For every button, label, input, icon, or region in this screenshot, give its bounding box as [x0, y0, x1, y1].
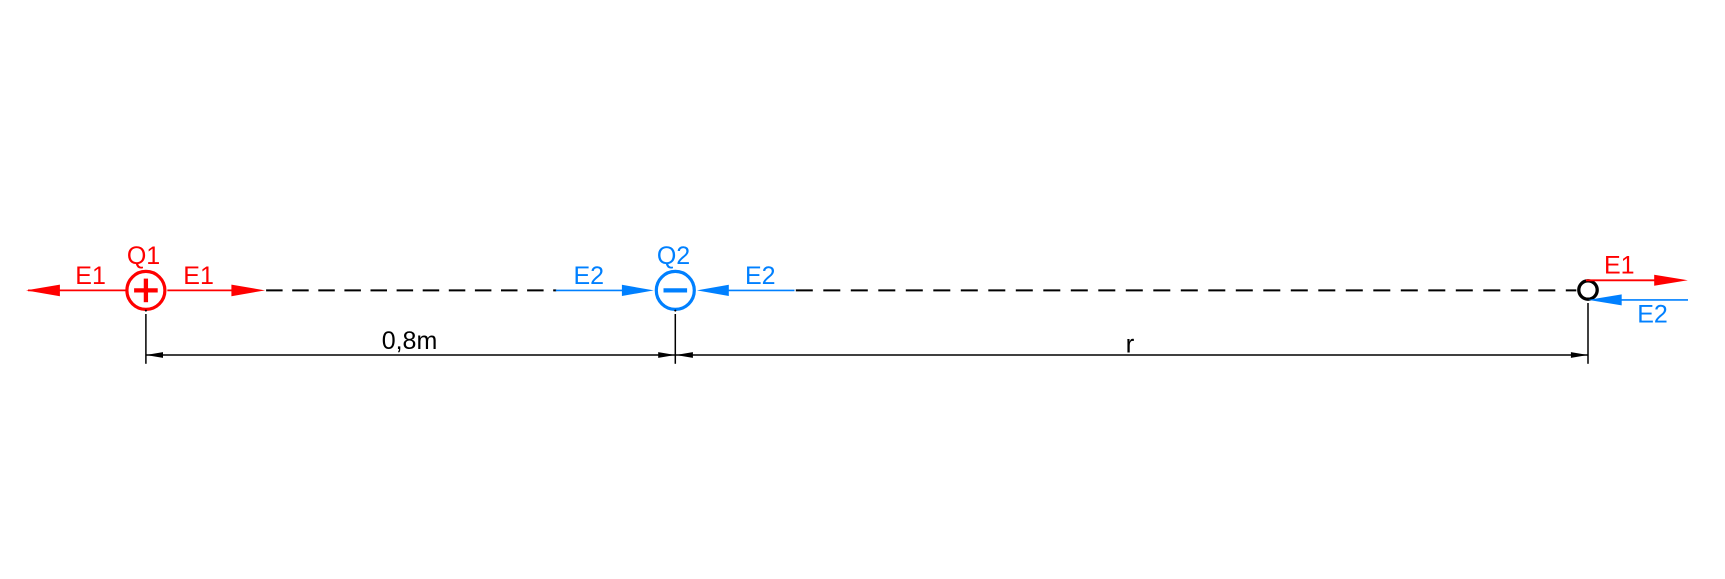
extension line under Q2	[674, 314, 676, 364]
vector E1 at point P	[1586, 275, 1688, 286]
dimension arrowhead at Q2 (points right)	[658, 352, 675, 358]
vector E2 arrow pointing left into Q2	[697, 285, 795, 296]
node: center mark dot under Q1	[145, 310, 147, 312]
wire: dashed axis segment between Q1 and Q2	[266, 289, 556, 291]
vector E2 at point P	[1588, 294, 1688, 305]
extension line under point P	[1587, 303, 1589, 364]
dimension arrowhead at P side of r (points right)	[1571, 352, 1588, 358]
plus sign inside Q1	[134, 279, 158, 303]
observation point P: small circle	[1579, 281, 1597, 299]
dimension arrowhead at Q2 side of r (points left)	[676, 352, 693, 358]
extension line under Q1	[145, 314, 147, 364]
wire: dashed axis segment between Q2 and point P	[796, 289, 1577, 291]
svg-text:E2: E2	[745, 262, 776, 290]
svg-text:E1: E1	[183, 262, 214, 290]
charge Q2: negative charge circle	[656, 271, 694, 309]
vector E2 arrow pointing right into Q2	[556, 285, 654, 296]
minus sign inside Q2	[664, 288, 688, 292]
vector E1 right arrow from Q1	[167, 285, 265, 297]
svg-text:Q1: Q1	[127, 242, 160, 270]
svg-text:E2: E2	[1637, 301, 1668, 329]
vector E1 left arrow from Q1	[26, 285, 126, 297]
node: center mark dot under Q2	[674, 310, 676, 312]
svg-text:E1: E1	[1604, 252, 1635, 280]
svg-text:0,8m: 0,8m	[382, 327, 438, 355]
dimension line 0,8m between Q1 and Q2	[146, 354, 675, 356]
dimension arrowhead at Q1 (points left)	[146, 352, 163, 358]
charge Q1: positive charge circle	[127, 271, 165, 309]
svg-text:Q2: Q2	[657, 242, 690, 270]
dimension line r between Q2 and P	[675, 354, 1588, 356]
svg-text:E1: E1	[75, 262, 106, 290]
svg-text:E2: E2	[574, 262, 605, 290]
svg-text:r: r	[1126, 328, 1135, 358]
